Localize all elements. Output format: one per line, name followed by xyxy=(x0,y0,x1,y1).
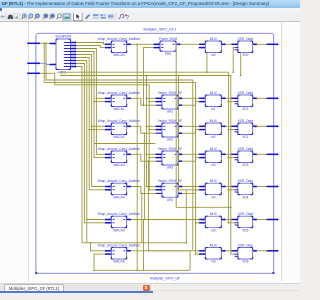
svg-text:XOR_Data: XOR_Data xyxy=(238,212,254,216)
svg-text:m2: m2 xyxy=(211,135,216,139)
wire mux out to xor row 4 xyxy=(226,153,232,155)
sheet output pin row 6 xyxy=(267,219,278,221)
wire xor out to port row 3 xyxy=(257,125,267,127)
sheet corner junction bottom-right xyxy=(272,272,274,274)
toolbar icon view image (checked) xyxy=(62,12,71,20)
toolbar icon pen xyxy=(85,14,90,19)
svg-text:SerialROM: SerialROM xyxy=(55,34,71,38)
svg-text:MUX: MUX xyxy=(210,91,218,95)
wire xor out to port row 4 xyxy=(257,153,267,155)
wire input1 to SerialROM xyxy=(40,42,49,44)
wire row5 branch down xyxy=(141,193,143,242)
svg-text:WACA4: WACA4 xyxy=(113,195,124,199)
svg-text:Wrap_Around_Carry_Addition: Wrap_Around_Carry_Addition xyxy=(98,243,141,247)
svg-text:MUX: MUX xyxy=(210,212,218,216)
wire input3 address route xyxy=(40,73,149,190)
window title bar xyxy=(0,0,300,8)
Vector_ROM_DP UR2 data pin xyxy=(156,132,163,134)
toolbar icon find files xyxy=(14,14,18,19)
toolbar icon back xyxy=(0,15,4,19)
SerialROM output pin 5 xyxy=(71,57,76,59)
wire SerialROM bit0 xyxy=(76,43,105,45)
svg-text:Wrap_Around_Carry_Addition: Wrap_Around_Carry_Addition xyxy=(98,147,141,151)
xor gate XD6 XOR_Data row 7 xyxy=(238,248,253,260)
wire loop up x186 xyxy=(185,191,187,243)
adder WACA1 Wrap_Around_Carry_Addition row 2 xyxy=(111,95,126,107)
Vector_ROM_DP UR2 second output pin xyxy=(178,132,182,134)
wire VectorROM out row 3 xyxy=(182,125,199,127)
svg-text:MUX: MUX xyxy=(210,147,218,151)
toolbar icon zoom full 1 xyxy=(43,14,48,19)
svg-text:XOR_Data: XOR_Data xyxy=(238,179,254,183)
wire PowerROM out to MUX xyxy=(180,43,199,45)
wire mux row1 select xyxy=(206,53,208,73)
adder WACA4 Wrap_Around_Carry_Addition row 5 xyxy=(111,183,126,195)
wire VectorROM out row 5 xyxy=(182,186,199,188)
sheet output pin row 4 xyxy=(267,153,278,155)
svg-text:Wrap_Around_Carry_Addition: Wrap_Around_Carry_Addition xyxy=(98,179,141,183)
wire mux out to xor row 2 xyxy=(226,97,232,99)
wire xor tick stub row 6 xyxy=(228,222,234,224)
svg-text:UR4: UR4 xyxy=(167,198,174,202)
toolbar xyxy=(0,12,300,22)
toolbar icon wrench xyxy=(118,14,123,19)
sheet corner junction bottom-left xyxy=(35,272,37,274)
svg-text:WACA1: WACA1 xyxy=(113,107,124,111)
wire WACA1 out jog to ROM row2 xyxy=(132,98,156,105)
svg-text:Wrap_Around_Carry_Addition: Wrap_Around_Carry_Addition xyxy=(98,91,141,95)
bottom tab bar xyxy=(0,283,300,300)
svg-text:XOR_Data: XOR_Data xyxy=(238,243,254,247)
mux M5 row 6 xyxy=(205,216,221,228)
toolbar icon zoom out xyxy=(28,14,33,19)
wire rom enable H1b xyxy=(60,76,235,255)
svg-text:Power_ROM: Power_ROM xyxy=(159,37,178,41)
svg-text:WACA2: WACA2 xyxy=(113,135,124,139)
Vector_ROM_DP UR4 data pin xyxy=(156,192,163,194)
toolbar icon zoom selection xyxy=(35,14,40,19)
wire input2 clk to SerialROM xyxy=(40,63,49,64)
wire SerialROM bit6 xyxy=(76,61,87,243)
SerialROM output pin 6 xyxy=(71,60,76,62)
wire feedback loop outer xyxy=(44,43,195,254)
svg-text:XD4: XD4 xyxy=(242,195,248,199)
wire mux out to xor row 7 xyxy=(226,250,232,252)
toolbar icon zoom in xyxy=(22,14,27,19)
Vector_ROM_DP UR1 data pin xyxy=(156,104,163,106)
sheet output pin row 1 xyxy=(267,43,278,45)
wire WACA4 out jog to ROM row5 xyxy=(132,187,156,194)
mux M6 row 7 xyxy=(205,248,221,260)
wire xor out to port row 2 xyxy=(257,97,267,99)
wire feedback loop inner xyxy=(46,43,193,250)
sheet output pin row 7 xyxy=(267,250,278,252)
wire bottom bus xyxy=(94,269,190,271)
svg-text:Multiplier_SIPO_GF:1: Multiplier_SIPO_GF:1 xyxy=(144,28,177,32)
toolbar icon zoom full 2 xyxy=(50,14,55,19)
wire rom in1 stub row 5 xyxy=(147,186,156,188)
svg-text:UR1: UR1 xyxy=(167,110,174,114)
wire SerialROM bit4 tap xyxy=(92,125,105,127)
svg-text:XD2: XD2 xyxy=(242,135,248,139)
wire rom addr stub row 4 xyxy=(149,157,155,159)
toolbar icon magnifier plain xyxy=(57,14,62,19)
wire xor out to port row 1 xyxy=(257,43,267,45)
svg-text:MUX: MUX xyxy=(210,179,218,183)
wire rom addr stub row 3 xyxy=(149,129,155,131)
SerialROM output pin 7 xyxy=(71,63,76,65)
sheet input pin Data_in xyxy=(27,42,39,44)
svg-text:Wrap_Around_Carry_Addition: Wrap_Around_Carry_Addition xyxy=(98,119,141,123)
menu bar xyxy=(0,8,300,12)
xor gate XD5 XOR_Data row 6 xyxy=(238,216,253,228)
wire mux select stub row 6 xyxy=(196,222,200,224)
ROM UR2 Vector_ROM_DP row 3 xyxy=(162,123,178,137)
wire mux row6 in1 feed xyxy=(144,133,199,219)
adder WACA2 Wrap_Around_Carry_Addition row 3 xyxy=(111,123,126,135)
wire VectorROM out2 row 4 xyxy=(182,158,199,162)
sheet input pin clk xyxy=(27,62,39,64)
toolbar button pressed select xyxy=(74,12,83,21)
svg-text:XD5: XD5 xyxy=(242,228,248,232)
xor gate XD0 XOR_Data row 1 xyxy=(238,41,253,53)
wire SerialROM bit4 xyxy=(76,55,105,187)
wire rom chain vertical a xyxy=(176,44,231,207)
wire SerialROM bit7 xyxy=(76,64,105,223)
ROM U_BR1 SerialROM body xyxy=(56,39,71,70)
svg-text:XD3: XD3 xyxy=(242,163,248,167)
xor gate XD4 XOR_Data row 5 xyxy=(238,183,253,195)
svg-text:XD0: XD0 xyxy=(242,53,248,57)
svg-text:PR0: PR0 xyxy=(165,52,171,56)
wire xor tick stub row 5 xyxy=(228,189,234,191)
svg-text:XOR_Data: XOR_Data xyxy=(238,119,254,123)
SerialROM left pin 2 xyxy=(50,64,55,66)
svg-text:Wrap_Around_Carry_Addition: Wrap_Around_Carry_Addition xyxy=(98,212,141,216)
sheet output pin row 3 xyxy=(267,125,278,127)
wire WACA0 out down V4a xyxy=(136,44,138,270)
wire crossing horizontal xyxy=(94,143,155,145)
active tab underline xyxy=(0,291,153,293)
SerialROM left pin 1 xyxy=(50,43,55,45)
Vector_ROM_DP UR3 second output pin xyxy=(178,160,182,162)
wire xor tick row1 xyxy=(233,48,234,73)
svg-text:MUX: MUX xyxy=(210,119,218,123)
wire rom addr stub row 2 xyxy=(149,101,155,103)
wire xor tick stub row 3 xyxy=(228,129,234,131)
mux M0 row 1 xyxy=(205,41,221,53)
wire SerialROM bit1 xyxy=(76,46,105,48)
xor gate XD3 XOR_Data row 4 xyxy=(238,151,253,163)
wire row7 horizontal H238 xyxy=(82,242,186,244)
sheet input pin reset xyxy=(27,72,39,74)
svg-text:m5: m5 xyxy=(211,228,216,232)
ROM UR3 Vector_ROM_DP row 4 xyxy=(162,151,178,165)
schematic sheet border Multiplier_SIPO_GF xyxy=(36,33,274,273)
wire WACA5 out down xyxy=(132,220,144,271)
xor gate XD2 XOR_Data row 3 xyxy=(238,123,253,135)
sheet output pin row 2 xyxy=(267,97,278,99)
SerialROM output pin 8 xyxy=(71,66,76,68)
wire VectorROM out2 row 3 xyxy=(182,130,199,134)
toolbar icon hierarchy 2 xyxy=(100,14,106,19)
wire xor out to port row 5 xyxy=(257,186,267,188)
wire WACA6 out loop xyxy=(132,251,190,270)
Vector_ROM_DP UR3 data pin xyxy=(156,160,163,162)
wire rom addr stub row 5 xyxy=(149,189,155,191)
wire xor out to port row 6 xyxy=(257,219,267,221)
wire SerialROM bit5 tap xyxy=(89,129,105,131)
svg-text:m3: m3 xyxy=(211,163,216,167)
svg-text:UR3: UR3 xyxy=(167,166,174,170)
adder WACA5 Wrap_Around_Carry_Addition row 6 xyxy=(111,216,126,228)
svg-text:Multiplier_SIPO_GF: Multiplier_SIPO_GF xyxy=(150,276,180,280)
wire SerialROM bit2 tap xyxy=(96,97,104,99)
wire SerialROM bit6 tap xyxy=(87,219,105,221)
xor gate XD1 XOR_Data row 2 xyxy=(238,95,253,107)
adder WACA0 Wrap_Around_Carry_Addition row 1 xyxy=(111,41,126,53)
svg-text:MUX: MUX xyxy=(210,243,218,247)
wire SerialROM bit8 xyxy=(76,67,82,243)
toolbar icon hierarchy 3 xyxy=(108,14,114,19)
wire rom chain vertical b xyxy=(179,76,200,190)
wire WACA0 out to PowerROM xyxy=(132,43,154,45)
Vector_ROM_DP UR1 second output pin xyxy=(178,104,182,106)
adder WACA3 Wrap_Around_Carry_Addition row 4 xyxy=(111,151,126,163)
toolbar icon help xyxy=(125,14,130,21)
wire VectorROM out row 2 xyxy=(182,97,199,99)
wire row7 in1 feed xyxy=(90,243,104,251)
wire row7 in2 feed xyxy=(94,254,105,270)
wire rom in1 stub row 2 xyxy=(147,97,156,99)
adder WACA6 Wrap_Around_Carry_Addition row 7 xyxy=(111,248,126,260)
SerialROM output pin 0 xyxy=(71,42,76,44)
svg-text:WACA5: WACA5 xyxy=(113,228,124,232)
wire rom in1 stub row 4 xyxy=(147,153,156,155)
svg-text:XOR_Data: XOR_Data xyxy=(238,91,254,95)
SerialROM output pin 1 xyxy=(71,45,76,47)
wire mux out to xor row 3 xyxy=(226,125,232,127)
wire SerialROM bit5 xyxy=(76,58,105,190)
svg-text:WACA3: WACA3 xyxy=(113,163,124,167)
svg-text:XD6: XD6 xyxy=(242,260,248,264)
wire mux out to xor row 5 xyxy=(226,186,232,188)
ROM UR4 Vector_ROM_DP row 5 xyxy=(162,183,178,197)
wire WACA2 out jog to ROM row3 xyxy=(132,126,156,133)
svg-text:XOR_Data: XOR_Data xyxy=(238,147,254,151)
wire VectorROM out2 row 2 xyxy=(182,102,199,106)
wire SerialROM bit2 xyxy=(76,49,105,155)
wire PowerROM in2 feed xyxy=(144,48,154,106)
SerialROM output pin 2 xyxy=(71,48,76,50)
wire VectorROM out2 row 5 xyxy=(182,190,199,194)
wire xor bus H1 xyxy=(57,72,228,223)
ROM UR1 Vector_ROM_DP row 2 xyxy=(162,95,178,109)
svg-text:m4: m4 xyxy=(211,195,216,199)
wire xor out to port row 7 xyxy=(257,250,267,252)
svg-text:m6: m6 xyxy=(211,260,216,264)
wire xor tick stub row 4 xyxy=(228,157,234,159)
mux M3 row 4 xyxy=(205,151,221,163)
Vector_ROM_DP UR4 second output pin xyxy=(178,192,182,194)
wire rom in1 vertical xyxy=(146,76,148,187)
sheet output pin row 5 xyxy=(267,186,278,188)
toolbar icon find (binoculars) xyxy=(8,15,14,19)
svg-text:MUX: MUX xyxy=(210,37,218,41)
wire xor tick stub row 2 xyxy=(228,101,234,103)
wire mux out to xor row 6 xyxy=(226,219,232,221)
wire xor row1 select xyxy=(240,53,242,76)
svg-text:m1: m1 xyxy=(211,107,216,111)
wire rom in1 stub row 3 xyxy=(147,125,156,127)
wire WACA3 out jog to ROM row4 xyxy=(132,154,156,161)
svg-text:WACA0: WACA0 xyxy=(113,53,124,57)
mux M2 row 3 xyxy=(205,123,221,135)
svg-text:WACA6: WACA6 xyxy=(113,260,124,264)
wire SerialROM bit3 xyxy=(76,52,105,158)
SerialROM output pin 4 xyxy=(71,54,76,56)
mux M1 row 2 xyxy=(205,95,221,107)
svg-text:XD1: XD1 xyxy=(242,107,248,111)
ROM PR0 Power_ROM row 1 xyxy=(160,41,176,51)
wire VectorROM out row 4 xyxy=(182,153,199,155)
mux M4 row 5 xyxy=(205,183,221,195)
svg-text:Wrap_Around_Carry_Addition: Wrap_Around_Carry_Addition xyxy=(98,37,141,41)
svg-text:XOR_Data: XOR_Data xyxy=(238,37,254,41)
wire mux out to xor row 1 xyxy=(226,43,232,45)
svg-text:m0: m0 xyxy=(211,53,216,57)
tab close button xyxy=(143,285,150,291)
SerialROM output pin 3 xyxy=(71,51,76,53)
view tab Multiplier_SIPO_GF xyxy=(4,284,64,292)
svg-text:UR2: UR2 xyxy=(167,138,174,142)
wire SerialROM bit3 tap xyxy=(94,101,105,103)
wire mux select stub row 7 xyxy=(196,253,200,255)
wire mux row7 in1 feed xyxy=(148,161,199,251)
toolbar icon hierarchy 1 xyxy=(93,14,99,19)
